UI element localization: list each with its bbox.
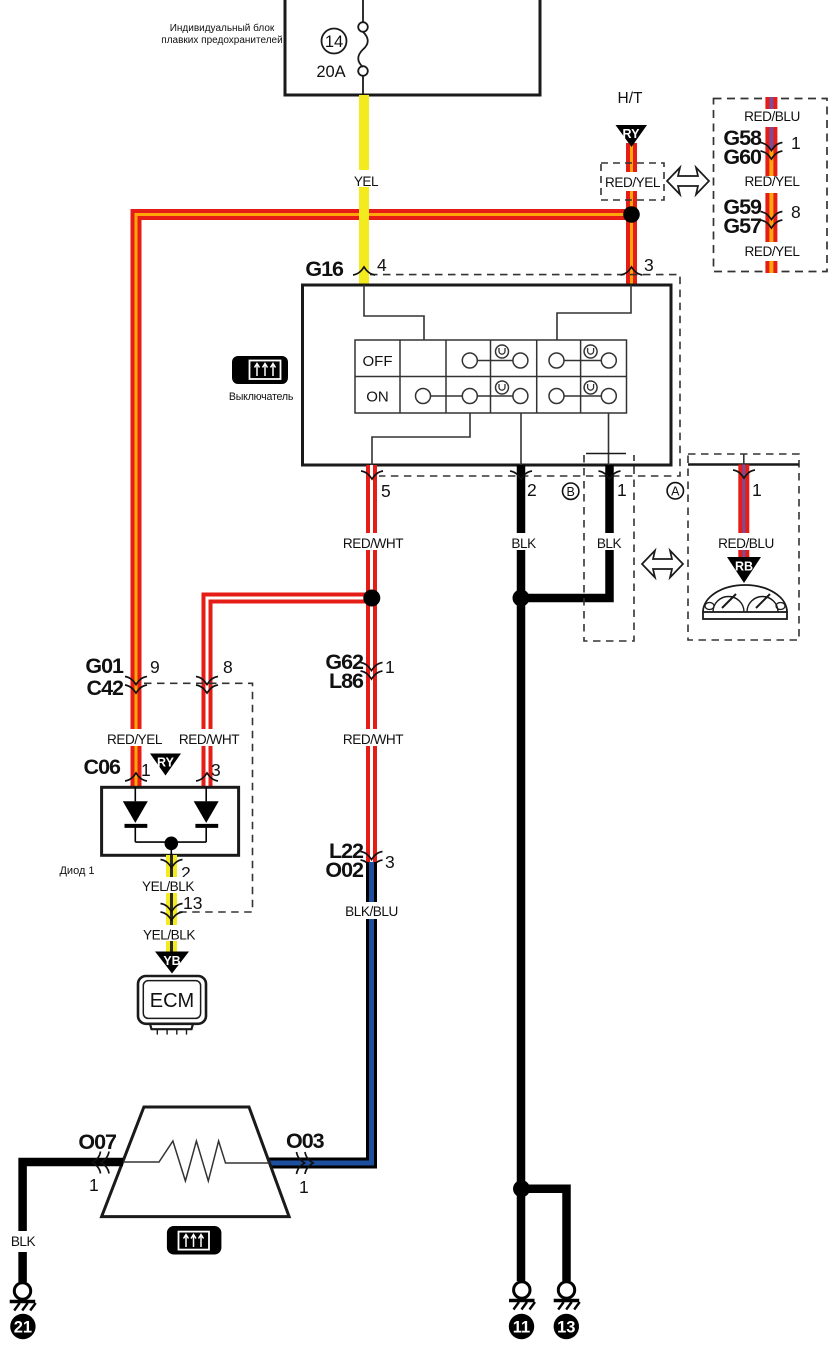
switch G16 component box	[303, 285, 672, 465]
svg-text:B: B	[567, 485, 575, 499]
svg-text:RED/BLU: RED/BLU	[744, 109, 800, 124]
label BLK (ground 21)	[8, 1232, 39, 1249]
svg-text:13: 13	[557, 1319, 575, 1337]
wire YEL from fuse to G16 pin 4	[359, 95, 369, 285]
fuse F14 20A	[322, 0, 368, 95]
internal wire from pin 4 to table	[364, 285, 424, 340]
ground number 11	[509, 1314, 534, 1339]
node: bottom junction of BLK wires	[513, 1180, 530, 1197]
connector G59/G57 chevrons pin 8	[760, 212, 782, 229]
label YEL	[348, 170, 384, 189]
reference dashed box G58/G60/G59/G57	[714, 99, 828, 272]
marker triangle RY (to H/T)	[616, 125, 648, 147]
label H/T	[618, 90, 644, 107]
svg-text:YEL: YEL	[354, 174, 379, 189]
fuse block label	[161, 22, 282, 46]
svg-text:OFF: OFF	[363, 353, 393, 370]
diode D2 (right)	[194, 787, 219, 842]
lamp symbol OFF col6	[584, 345, 597, 358]
label RED/BLU	[744, 109, 800, 124]
svg-text:A: A	[671, 485, 680, 499]
connector code A	[667, 483, 683, 499]
internal wire table to pin 2	[520, 413, 522, 465]
wire RED/WHT from G16 pin 5 to L22/O02	[366, 465, 377, 862]
C06 pin 3	[196, 760, 221, 781]
wire RED/YEL segment above G59/G57	[765, 193, 777, 219]
instrument cluster icon	[703, 585, 787, 619]
connector G62/L86 chevrons pin 1	[361, 663, 383, 680]
dashed box instrument cluster	[688, 454, 799, 640]
diode output bus	[135, 842, 206, 855]
connector G58/G60 chevrons pin 1	[760, 143, 782, 160]
G16 pin 5	[361, 471, 391, 501]
labels G62 L86 1	[325, 650, 394, 693]
svg-text:3: 3	[644, 255, 654, 275]
wire RED/YEL segment below G59/G57	[765, 219, 777, 242]
arrow (cross-reference, middle)	[642, 551, 683, 578]
wire RED/YEL: top horizontal + left drop to C06 pin 1	[136, 215, 632, 788]
label BLK/BLU	[342, 902, 402, 919]
ground symbol (21)	[10, 1283, 36, 1311]
OFF row contacts	[462, 353, 616, 368]
cluster component top edge	[688, 454, 799, 465]
svg-text:BLK: BLK	[511, 536, 536, 551]
label RED/YEL (left branch)	[107, 729, 163, 747]
connector L22/O02 chevrons pin 3	[361, 852, 383, 869]
node: junction on RED/WHT wire	[363, 590, 380, 607]
svg-text:G57: G57	[723, 214, 762, 238]
label RED/YEL (bottom)	[744, 244, 800, 259]
svg-text:O02: O02	[325, 858, 364, 882]
svg-text:1: 1	[299, 1177, 309, 1197]
ground symbol (11)	[509, 1282, 535, 1310]
ON row contact links	[423, 395, 608, 397]
svg-text:13: 13	[183, 893, 202, 913]
G16 connector dashed outline	[370, 275, 680, 476]
svg-text:2: 2	[527, 480, 537, 500]
wire BLK/BLU to defogger	[269, 862, 372, 1163]
label RED/WHT (pin 5)	[342, 533, 404, 551]
svg-text:8: 8	[223, 657, 233, 677]
C06 pin 1	[125, 760, 151, 781]
dashed box around diode module wiring	[144, 683, 253, 912]
node: junction of RED/YEL wires	[623, 206, 640, 223]
connector G01/C42 chevrons pin 8	[196, 657, 233, 693]
svg-text:1: 1	[617, 480, 627, 500]
svg-text:RED/WHT: RED/WHT	[179, 732, 239, 747]
svg-text:1: 1	[752, 480, 762, 500]
connector pin 13 chevrons	[161, 893, 203, 920]
wire BLK from G16 pin 1	[521, 465, 610, 598]
svg-text:YEL/BLK: YEL/BLK	[143, 928, 195, 943]
svg-text:RED/WHT: RED/WHT	[343, 732, 403, 747]
label RED/WHT (left branch)	[179, 729, 239, 747]
label BLK (pin 2)	[508, 533, 539, 551]
connector code B	[563, 483, 579, 499]
ground symbol (13)	[554, 1282, 580, 1310]
lamp symbol OFF col4	[496, 345, 509, 358]
svg-text:1: 1	[89, 1175, 99, 1195]
switch icon (rear defogger switch)	[232, 356, 288, 384]
G16 pin 3	[621, 255, 654, 275]
wire RED/YEL segment below G58/G60	[765, 150, 777, 176]
ECM module	[138, 976, 206, 1035]
diode module C06 box	[102, 787, 239, 855]
node: diode junction	[165, 837, 179, 851]
svg-text:ON: ON	[366, 389, 389, 406]
arrow (cross-reference, top)	[667, 168, 709, 195]
ground number 13	[554, 1314, 579, 1339]
labels L22 O02 3	[325, 839, 394, 882]
svg-text:плавких предохранителей: плавких предохранителей	[161, 35, 282, 46]
label ECM	[150, 990, 194, 1012]
svg-text:1: 1	[791, 133, 801, 153]
switch icon label (Выключатель)	[229, 391, 294, 403]
svg-text:3: 3	[211, 760, 221, 780]
dashed label box RED/YEL	[601, 163, 664, 200]
svg-text:G16: G16	[305, 257, 344, 281]
svg-text:Выключатель: Выключатель	[229, 391, 294, 403]
label Диод 1	[59, 865, 94, 877]
svg-text:RED/YEL: RED/YEL	[744, 174, 800, 189]
wire BLK branch to ground 13	[522, 1189, 567, 1281]
labels G58 G60 1	[723, 126, 800, 169]
label RED/WHT (mid)	[341, 729, 403, 747]
label RED/BLU (cluster)	[717, 533, 775, 551]
ON row contacts	[416, 389, 617, 404]
connector G01/C42 chevrons pin 9	[125, 657, 160, 693]
switch state table grid	[355, 340, 627, 413]
fuse labels 14 / 20A	[316, 33, 345, 81]
table labels OFF / ON	[363, 353, 393, 406]
wire RED/BLU segment (top stub)	[765, 97, 777, 109]
wire RED/WHT branch to G01/C42 pin 8 and C06 pin 3	[207, 598, 372, 787]
wire RED/BLU segment above G58/G60	[765, 127, 777, 150]
svg-text:O07: O07	[78, 1130, 117, 1154]
wire BLK from G16 pin 2	[517, 465, 526, 1281]
svg-text:11: 11	[513, 1319, 530, 1337]
svg-text:G01: G01	[85, 654, 124, 678]
svg-text:21: 21	[14, 1319, 32, 1337]
svg-text:3: 3	[385, 852, 395, 872]
svg-text:RB: RB	[735, 560, 753, 574]
svg-text:ECM: ECM	[150, 990, 194, 1012]
node: junction of BLK wires	[513, 590, 530, 607]
internal wire table to pin 5	[372, 413, 470, 465]
marker triangle YB	[155, 952, 189, 974]
label YEL/BLK (lower)	[143, 925, 198, 943]
svg-text:8: 8	[791, 202, 801, 222]
internal wire from pin 3 to table	[557, 285, 631, 340]
svg-text:RED/YEL: RED/YEL	[605, 175, 661, 190]
labels G59 G57 8	[723, 195, 800, 238]
svg-text:G60: G60	[723, 145, 762, 169]
wire RED/YEL: H/T branch down to G16 pin 3	[626, 143, 637, 285]
diode D1 (left)	[123, 787, 148, 842]
label YEL/BLK (upper)	[142, 877, 198, 894]
fuse block (Индивидуальный блок плавких предохранителей)	[285, 0, 540, 95]
svg-text:BLK: BLK	[11, 1234, 36, 1249]
svg-text:14: 14	[325, 33, 343, 51]
svg-text:BLK/BLU: BLK/BLU	[345, 904, 398, 919]
G16 pin 1	[599, 471, 627, 500]
svg-text:RY: RY	[157, 756, 175, 770]
label BLK (pin 1)	[594, 533, 625, 551]
wire RED/YEL bottom stub	[765, 261, 777, 273]
svg-text:RED/BLU: RED/BLU	[718, 536, 774, 551]
svg-text:BLK: BLK	[597, 536, 622, 551]
svg-text:YEL/BLK: YEL/BLK	[142, 879, 194, 894]
svg-text:20A: 20A	[316, 63, 345, 81]
label G01 C42	[85, 654, 124, 700]
svg-text:C42: C42	[87, 676, 124, 700]
lamp symbol ON col6	[584, 381, 597, 394]
wire YEL/BLK from C06 pin 2 to ECM	[166, 855, 177, 952]
rear window defogger element (trapezoid)	[102, 1107, 290, 1217]
label C06	[84, 755, 121, 779]
label O03 pin 1	[286, 1129, 325, 1197]
svg-text:Диод 1: Диод 1	[59, 865, 94, 877]
svg-text:5: 5	[381, 481, 391, 501]
svg-text:RED/WHT: RED/WHT	[343, 536, 403, 551]
C06 pin 2	[161, 860, 191, 884]
G16 pin 4	[353, 255, 387, 275]
defogger icon	[167, 1226, 222, 1255]
component edge mark inside box A	[586, 453, 626, 455]
svg-text:RY: RY	[623, 127, 641, 141]
label G16	[305, 257, 344, 281]
defogger resistor element	[123, 1141, 270, 1181]
svg-text:RED/YEL: RED/YEL	[107, 732, 163, 747]
svg-text:RED/YEL: RED/YEL	[744, 244, 800, 259]
label O07 pin 1	[78, 1130, 117, 1195]
wire RED/BLU to instrument cluster	[738, 465, 749, 560]
svg-text:1: 1	[385, 657, 395, 677]
svg-text:9: 9	[150, 657, 160, 677]
wire BLK from defogger O07 to ground 21	[23, 1162, 123, 1231]
OFF row contact links	[470, 360, 608, 362]
svg-text:L86: L86	[329, 669, 364, 693]
lamp symbol ON col4	[496, 381, 509, 394]
svg-text:1: 1	[141, 760, 151, 780]
marker triangle RB	[727, 557, 761, 583]
ground number 21	[10, 1314, 35, 1339]
svg-text:H/T: H/T	[618, 90, 644, 107]
cluster pin 1	[733, 470, 762, 500]
svg-text:Индивидуальный блок: Индивидуальный блок	[170, 22, 275, 34]
wire BLK lower stub to ground 21	[18, 1252, 27, 1282]
G16 pin 2	[510, 471, 537, 500]
svg-text:O03: O03	[286, 1129, 325, 1153]
marker triangle RY (left)	[150, 754, 181, 776]
svg-text:C06: C06	[84, 755, 121, 779]
dashed box A (variant connector)	[584, 455, 634, 641]
label RED/YEL (mid)	[744, 174, 800, 189]
svg-text:4: 4	[377, 255, 387, 275]
svg-text:YB: YB	[163, 954, 180, 968]
internal wire table to pin 1	[608, 413, 610, 465]
